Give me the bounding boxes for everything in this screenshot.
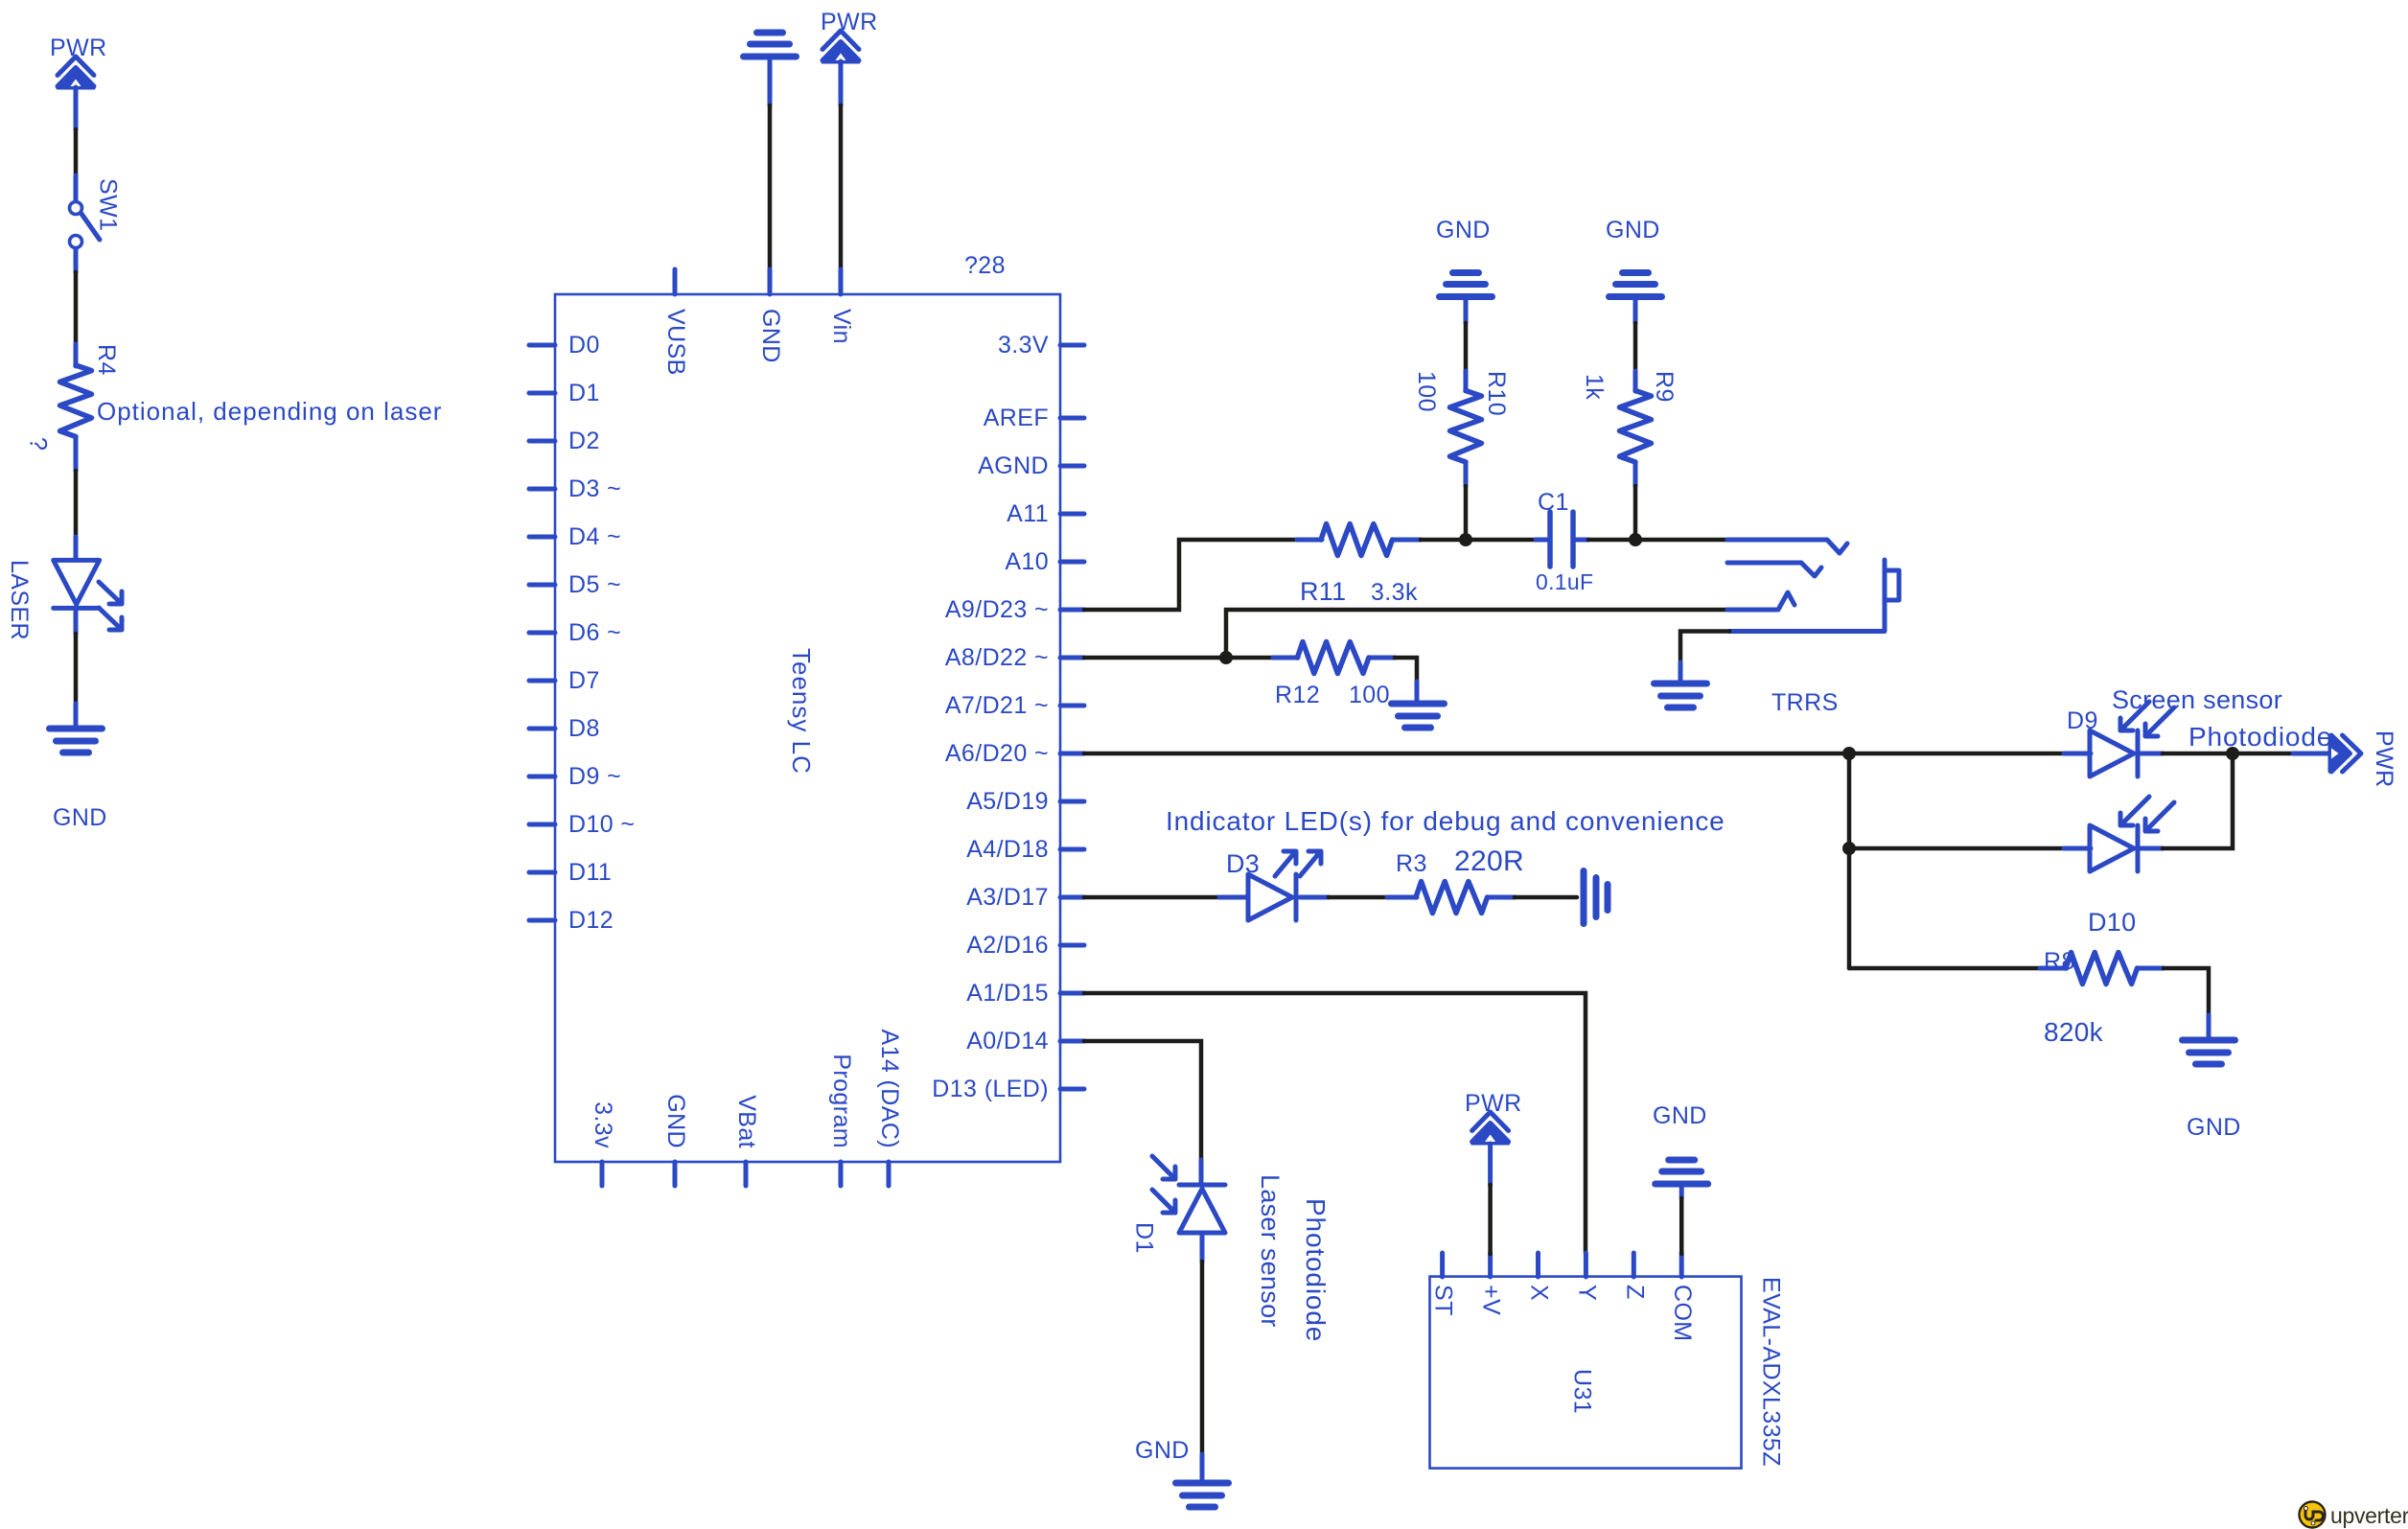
resistor R11 [1300, 524, 1421, 607]
svg-text:Laser sensor: Laser sensor [1256, 1174, 1285, 1328]
wire D9 to PWR [2138, 752, 2331, 756]
svg-text:GND: GND [2187, 1114, 2241, 1141]
svg-text:?: ? [25, 437, 52, 451]
svg-text:PWR: PWR [1465, 1090, 1522, 1117]
svg-text:PWR: PWR [2371, 730, 2397, 788]
svg-text:COM: COM [1669, 1285, 1696, 1342]
wire R8 row [1849, 966, 2067, 971]
pin D11 [529, 859, 612, 886]
pin 3.3v (bottom) [590, 1101, 616, 1186]
svg-text:R4: R4 [93, 344, 120, 376]
svg-text:D4 ~: D4 ~ [568, 523, 621, 550]
photodiode D10 [2088, 797, 2174, 937]
pin A6/D20 [945, 740, 1084, 767]
svg-text:A3/D17: A3/D17 [966, 884, 1049, 911]
pin VBat [733, 1095, 760, 1186]
svg-text:Photodiode: Photodiode [2188, 722, 2332, 752]
pin X [1526, 1253, 1553, 1301]
svg-text:Screen sensor: Screen sensor [2112, 685, 2282, 714]
pin +V [1478, 1253, 1505, 1315]
wire R9 to junction [1633, 462, 1638, 540]
svg-text:A9/D23 ~: A9/D23 ~ [945, 596, 1049, 623]
svg-text:EVAL-ADXL335Z: EVAL-ADXL335Z [1758, 1277, 1785, 1467]
svg-text:A2/D16: A2/D16 [966, 932, 1049, 959]
svg-text:R9: R9 [1651, 371, 1678, 403]
svg-text:D5 ~: D5 ~ [568, 571, 621, 598]
svg-text:AGND: AGND [978, 452, 1049, 479]
switch SW1 [70, 178, 122, 248]
wire A8/D22 to junction [1084, 610, 1727, 658]
svg-text:R3: R3 [1396, 850, 1427, 877]
pin AGND [978, 452, 1084, 479]
pin A8/D22 [945, 644, 1084, 671]
svg-text:Y: Y [1573, 1285, 1600, 1301]
ground (R12) [1392, 704, 1445, 728]
LED D3 [1226, 849, 1321, 920]
wire GND to COM pin [1679, 1198, 1684, 1254]
svg-text:Z: Z [1621, 1285, 1648, 1300]
svg-text:LASER: LASER [6, 560, 33, 640]
resistor R8 [2044, 948, 2164, 1047]
svg-text:D2: D2 [568, 428, 600, 454]
svg-text:D0: D0 [568, 332, 600, 359]
photodiode D1 [1131, 1156, 1226, 1254]
wire R10 to junction [1464, 462, 1469, 540]
pin D0 [529, 332, 600, 359]
wire A3/D17 to D3 [1084, 895, 1248, 900]
wire LASER to ground [74, 608, 79, 729]
svg-text:A14 (DAC): A14 (DAC) [876, 1030, 903, 1148]
pin A2/D16 [966, 932, 1084, 959]
svg-text:D1: D1 [1131, 1222, 1158, 1254]
svg-text:GND: GND [1606, 217, 1660, 243]
svg-text:U31: U31 [1569, 1369, 1596, 1414]
svg-text:GND: GND [53, 804, 107, 831]
ground (laser branch) [50, 729, 107, 831]
wire PWR to SW1 [74, 129, 79, 200]
svg-text:A5/D19: A5/D19 [966, 788, 1049, 815]
pin D6 [529, 619, 621, 646]
wire PWR to Teensy Vin pin [839, 105, 844, 272]
pin D12 [529, 907, 614, 934]
power flag PWR (Vin) [821, 9, 878, 105]
wire D10 row [1849, 846, 2091, 851]
svg-text:A0/D14: A0/D14 [966, 1028, 1049, 1054]
svg-text:D6 ~: D6 ~ [568, 619, 621, 646]
ground (TRRS) [1655, 683, 1707, 707]
node junction A8/D22 [1219, 651, 1233, 664]
connector TRRS sleeve [1729, 560, 1899, 716]
wire R4 to LASER [74, 437, 79, 559]
node junction D10 branch [1842, 842, 1856, 855]
wire R11 to C1 [1421, 538, 1547, 543]
svg-text:VUSB: VUSB [662, 309, 689, 376]
svg-text:Teensy LC: Teensy LC [787, 648, 816, 775]
svg-text:GND: GND [662, 1094, 689, 1148]
ground (R8) [2183, 1040, 2241, 1141]
pin D4 [529, 523, 621, 550]
wire D10 branch vertical [1847, 753, 1852, 968]
wire R8 to ground [2164, 968, 2209, 1040]
pin Program [828, 1054, 855, 1186]
svg-text:820k: 820k [2044, 1017, 2104, 1047]
wire SW1 to R4 [74, 249, 79, 366]
svg-text:D3 ~: D3 ~ [568, 475, 621, 502]
svg-text:D9: D9 [2067, 707, 2098, 734]
connector TRRS tip contact [1727, 540, 1847, 553]
svg-text:220R: 220R [1454, 846, 1524, 877]
pin Vin [828, 269, 855, 344]
svg-text:GND: GND [757, 309, 784, 363]
wire GND to R10 [1464, 323, 1469, 391]
power flag PWR (photodiode net) [2329, 730, 2397, 788]
svg-text:GND: GND [1436, 217, 1491, 243]
svg-text:D10: D10 [2088, 908, 2136, 937]
svg-text:+V: +V [1478, 1285, 1505, 1315]
svg-text:A4/D18: A4/D18 [966, 836, 1049, 863]
node junction R10/R11 [1459, 533, 1472, 546]
svg-text:GND: GND [1135, 1437, 1190, 1464]
pin 3.3V [998, 332, 1084, 359]
pin Y [1573, 1253, 1600, 1301]
ground (R3, rotated) [1584, 871, 1608, 924]
svg-text:VBat: VBat [733, 1095, 760, 1148]
wire TRRS sleeve to ground [1680, 632, 1729, 684]
svg-text:PWR: PWR [821, 9, 878, 35]
wire R12 to ground [1395, 658, 1417, 704]
wire A6/D20 long net [1084, 752, 2091, 756]
svg-text:3.3k: 3.3k [1371, 579, 1418, 606]
svg-text:D8: D8 [568, 715, 600, 742]
ground (above R9) [1606, 217, 1662, 323]
pin VUSB [662, 269, 689, 376]
svg-text:TRRS: TRRS [1771, 689, 1839, 716]
pin A9/D23 [945, 596, 1084, 623]
svg-text:A6/D20 ~: A6/D20 ~ [945, 740, 1049, 767]
pin A11 [1007, 500, 1084, 527]
logo upverter [2300, 1502, 2408, 1529]
resistor R4 [25, 344, 121, 451]
pin A14 (DAC) [876, 1030, 903, 1186]
svg-text:A11: A11 [1007, 500, 1049, 527]
IC U31 EVAL-ADXL335Z body [1430, 1277, 1785, 1469]
pin D8 [529, 715, 600, 742]
svg-text:100: 100 [1413, 371, 1440, 412]
svg-text:D12: D12 [568, 907, 614, 934]
capacitor C1 [1536, 489, 1593, 594]
resistor R12 [1275, 642, 1395, 709]
svg-text:Vin: Vin [828, 309, 855, 344]
svg-text:A8/D22 ~: A8/D22 ~ [945, 644, 1049, 671]
svg-text:D9 ~: D9 ~ [568, 763, 621, 790]
svg-text:R8: R8 [2044, 948, 2075, 975]
ground (Teensy GND top pin) [744, 33, 797, 105]
svg-text:D10 ~: D10 ~ [568, 811, 635, 838]
svg-text:R12: R12 [1275, 682, 1320, 708]
pin ST [1430, 1253, 1457, 1316]
photodiode D9 [2067, 702, 2174, 776]
pin A5/D19 [966, 788, 1084, 815]
pin D13 (LED) [932, 1076, 1084, 1102]
pin D2 [529, 428, 600, 454]
svg-text:0.1uF: 0.1uF [1536, 569, 1593, 594]
svg-text:Program: Program [828, 1054, 855, 1148]
svg-text:D1: D1 [568, 380, 600, 406]
pin D7 [529, 667, 600, 694]
svg-text:GND: GND [1653, 1102, 1707, 1129]
pin A1/D15 [966, 980, 1084, 1007]
wire D1 to ground [1200, 1233, 1205, 1483]
laser diode LASER [6, 560, 122, 640]
svg-text:3.3v: 3.3v [590, 1101, 616, 1148]
ground (D1) [1135, 1437, 1229, 1507]
svg-text:SW1: SW1 [95, 178, 122, 231]
svg-text:R10: R10 [1483, 371, 1510, 416]
ground (U31 COM) [1653, 1102, 1708, 1198]
IC U28 Teensy LC body [555, 252, 1060, 1162]
wire GND to R9 [1633, 323, 1638, 391]
pin D10 [529, 811, 635, 838]
ground (above R10) [1436, 217, 1493, 323]
svg-text:D7: D7 [568, 667, 600, 694]
wire A8/D22 to R12 [1226, 656, 1298, 660]
wire D10 cathode up to junction [2138, 753, 2233, 848]
wire PWR to +V pin [1488, 1185, 1493, 1254]
svg-text:upverter: upverter [2330, 1503, 2408, 1528]
resistor R10 [1413, 371, 1510, 462]
svg-text:ST: ST [1430, 1285, 1457, 1316]
pin AREF [984, 405, 1084, 431]
power flag PWR (laser branch) [50, 35, 107, 129]
pin Z [1621, 1253, 1648, 1300]
svg-text:Photodiode: Photodiode [1301, 1198, 1331, 1342]
pin A4/D18 [966, 836, 1084, 863]
power flag PWR (U31 +V) [1465, 1090, 1522, 1185]
svg-text:A1/D15: A1/D15 [966, 980, 1049, 1007]
pin D3 [529, 475, 621, 502]
pin GND (bottom) [662, 1094, 689, 1186]
connector TRRS ring1 contact [1727, 563, 1821, 576]
svg-text:D13 (LED): D13 (LED) [932, 1076, 1049, 1102]
node junction D9 cathode [2226, 747, 2239, 760]
connector TRRS ring2 contact [1727, 592, 1794, 610]
svg-text:PWR: PWR [50, 35, 107, 61]
pin A3/D17 [966, 884, 1084, 911]
pin A7/D21 [945, 692, 1084, 719]
wire C1 to R9 junction [1576, 538, 1727, 543]
wire R3 to ground [1515, 895, 1577, 900]
wire GND symbol to Teensy GND pin [768, 105, 773, 272]
svg-text:R11: R11 [1300, 577, 1346, 606]
resistor R9 [1581, 371, 1678, 462]
pin A0/D14 [966, 1028, 1084, 1054]
svg-text:AREF: AREF [984, 405, 1049, 431]
svg-text:D3: D3 [1226, 849, 1260, 878]
wire A1/D15 to U31 Y [1084, 993, 1586, 1253]
svg-text:Indicator LED(s) for debug and: Indicator LED(s) for debug and convenien… [1166, 806, 1725, 836]
wire D3 to R3 [1300, 895, 1417, 900]
pin COM [1669, 1253, 1696, 1342]
wire A0/D14 to D1 [1084, 1041, 1201, 1185]
svg-text:?28: ?28 [964, 252, 1006, 279]
svg-text:D11: D11 [568, 859, 612, 886]
svg-text:3.3V: 3.3V [998, 332, 1049, 359]
svg-text:Optional, depending on laser: Optional, depending on laser [97, 397, 442, 426]
node junction A6/D20 [1842, 747, 1856, 760]
svg-text:100: 100 [1349, 682, 1390, 708]
svg-text:X: X [1526, 1285, 1553, 1301]
pin D9 [529, 763, 621, 790]
resistor R3 [1396, 846, 1524, 914]
pin A10 [1005, 548, 1084, 575]
pin GND (top) [757, 269, 784, 363]
pin D5 [529, 571, 621, 598]
svg-text:C1: C1 [1538, 489, 1569, 516]
svg-text:A7/D21 ~: A7/D21 ~ [945, 692, 1049, 719]
svg-text:A10: A10 [1005, 548, 1049, 575]
node junction R9/C1 [1629, 533, 1642, 546]
svg-text:1k: 1k [1581, 374, 1608, 400]
pin D1 [529, 380, 600, 406]
wire A9/D23 jog [1084, 540, 1322, 610]
